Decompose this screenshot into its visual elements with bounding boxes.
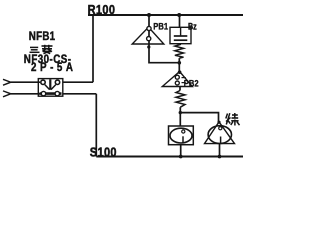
pilot lamp inner dash: [220, 137, 222, 144]
label Mitsubishi 三菱 (drawn strokes): [30, 45, 53, 54]
pushbutton PB2 contact b: [175, 81, 179, 85]
pushbutton PB1 contact a: [147, 26, 151, 30]
junction dot lamp at S100: [218, 155, 222, 159]
pilot lamp inner ring: [219, 127, 222, 130]
svg-text:NFB1: NFB1: [29, 30, 56, 43]
junction dot buzzer branch at R100: [177, 13, 181, 17]
pilot lamp PL triangle: [205, 122, 235, 144]
resistor zigzag 1: [175, 44, 184, 59]
buzzer BZ plate 1: [174, 35, 188, 37]
breaker NFB1 box: [38, 79, 63, 97]
wire R100 top rail: [88, 14, 243, 16]
junction dot node B: [179, 111, 182, 114]
pushbutton PB2 contact a: [175, 75, 179, 79]
wire breaker output upper to R100 drop: [63, 81, 93, 83]
relay coil R inner ring: [182, 130, 185, 133]
relay coil R inner dash: [182, 136, 184, 143]
pushbutton PB2 contact tick b: [182, 82, 186, 84]
junction dot PB1 branch at R100: [147, 13, 151, 17]
breaker NFB1 linkage bar: [49, 79, 51, 90]
label green 綠 (drawn strokes): [226, 113, 240, 126]
svg-text:Bz: Bz: [188, 22, 197, 32]
breaker NFB1 bottom contact bar: [40, 92, 62, 95]
junction dot below PB1: [147, 45, 150, 48]
wire lamp to S100: [219, 144, 221, 157]
pushbutton PB1 contact b: [147, 37, 151, 41]
breaker NFB1 blade pole2: [51, 85, 56, 90]
junction dot lamp apex: [217, 121, 220, 124]
wire PB1 to node A: [149, 44, 179, 63]
wire right drop to S100: [95, 94, 97, 157]
wire node B to lamp branch: [180, 113, 218, 122]
pushbutton PB1 triangle: [132, 27, 164, 44]
source arrow upper (R phase): [3, 79, 11, 85]
breaker NFB1 blade pole1: [45, 85, 50, 90]
wire PB2 to resistor 2: [179, 87, 181, 91]
node R100 label: [88, 4, 116, 18]
wire to node A: [178, 58, 180, 72]
pilot lamp PL ellipse: [208, 126, 231, 144]
buzzer BZ plate 2: [174, 39, 188, 41]
junction dot PB2 apex: [178, 70, 182, 74]
wire left drop from R100 to breaker: [92, 15, 94, 82]
wire breaker output lower: [63, 93, 97, 95]
relay coil R ellipse: [170, 128, 192, 143]
wire buzzer branch drop: [179, 15, 181, 27]
pushbutton PB2 triangle: [162, 72, 192, 87]
wire S100 bottom rail: [96, 156, 243, 158]
pushbutton PB2 contact tick a: [182, 77, 186, 79]
buzzer BZ box: [170, 27, 191, 43]
buzzer BZ internal stem: [180, 27, 182, 36]
svg-text:PB2: PB2: [184, 77, 199, 88]
wire coil to S100: [180, 145, 182, 157]
wire PB1 branch drop: [148, 15, 150, 44]
junction dot coil at S100: [179, 155, 183, 159]
resistor zigzag 2: [176, 91, 185, 108]
svg-text:2P-5A: 2P-5A: [31, 61, 77, 74]
breaker NFB1 pole 2 terminals: [41, 91, 45, 95]
relay coil R box: [169, 126, 194, 145]
wire resistor 2 to node B: [179, 107, 181, 126]
junction dot node A: [178, 61, 182, 65]
wire breaker input upper: [11, 81, 40, 83]
breaker NFB1 pole 1 terminals: [41, 80, 45, 84]
svg-text:PB1: PB1: [153, 21, 168, 32]
wire breaker input lower: [11, 93, 40, 95]
source arrow lower (S phase): [3, 91, 11, 97]
